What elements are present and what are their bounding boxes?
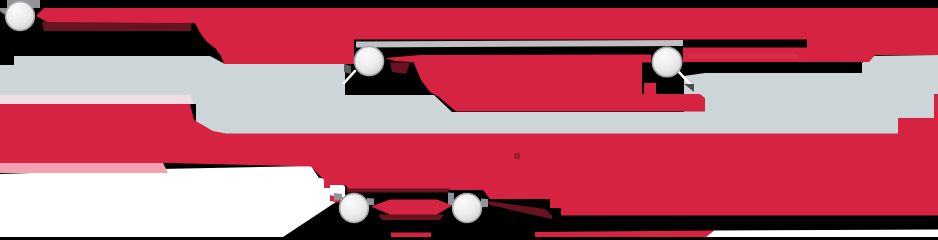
- thin gray ribbon node2-node3: [356, 40, 683, 48]
- shadow under steps right of node5: [487, 201, 552, 219]
- circle1 shadow smudge: [0, 8, 8, 15]
- shadow under stripe near node4: [345, 189, 450, 193]
- gray wedge left of node5: [448, 193, 454, 206]
- node 5: [453, 194, 482, 223]
- handle line node2: [344, 71, 355, 83]
- handle line node3: [678, 71, 690, 84]
- node 2: [355, 47, 384, 76]
- gray wedge right of node5: [481, 199, 488, 208]
- dark red dot: [514, 153, 520, 159]
- light red seam right: [688, 54, 798, 58]
- red bit left of node4: [330, 195, 341, 203]
- red stripe bottom small: [391, 233, 431, 238]
- red diagonal upper-left: [195, 23, 354, 64]
- node 4: [340, 194, 369, 223]
- red bottom mega band: [0, 94, 938, 216]
- pale pink strip left: [0, 95, 194, 104]
- white ribbon lower-left: [0, 166, 345, 237]
- gray wedge right of node4: [367, 198, 374, 205]
- node 1: [6, 2, 35, 31]
- gray wedge left of node4: [334, 193, 342, 201]
- shadow under connector: [378, 215, 444, 221]
- dark wedge node3: [684, 84, 694, 92]
- red ribbon top band: [36, 8, 938, 62]
- dark wedge node2: [344, 64, 351, 74]
- gray band right portion: [684, 55, 938, 118]
- red central mass: [411, 56, 642, 112]
- red ribbon node2 to node3: [385, 55, 651, 63]
- shadow under top band: [42, 22, 191, 31]
- red patch under node3: [642, 94, 705, 112]
- node 3: [652, 47, 681, 76]
- red connector node4-node5: [371, 200, 452, 215]
- gray band left+middle strip: [0, 56, 898, 134]
- red bit under node3 left: [644, 83, 656, 94]
- white ribbon strip bottom-right: [706, 230, 938, 238]
- gray stub ribbon top-left: [7, 0, 40, 8]
- red stripe bottom long: [535, 231, 714, 238]
- pink strip left: [0, 163, 168, 173]
- shadow under node2 ribbon: [390, 63, 410, 75]
